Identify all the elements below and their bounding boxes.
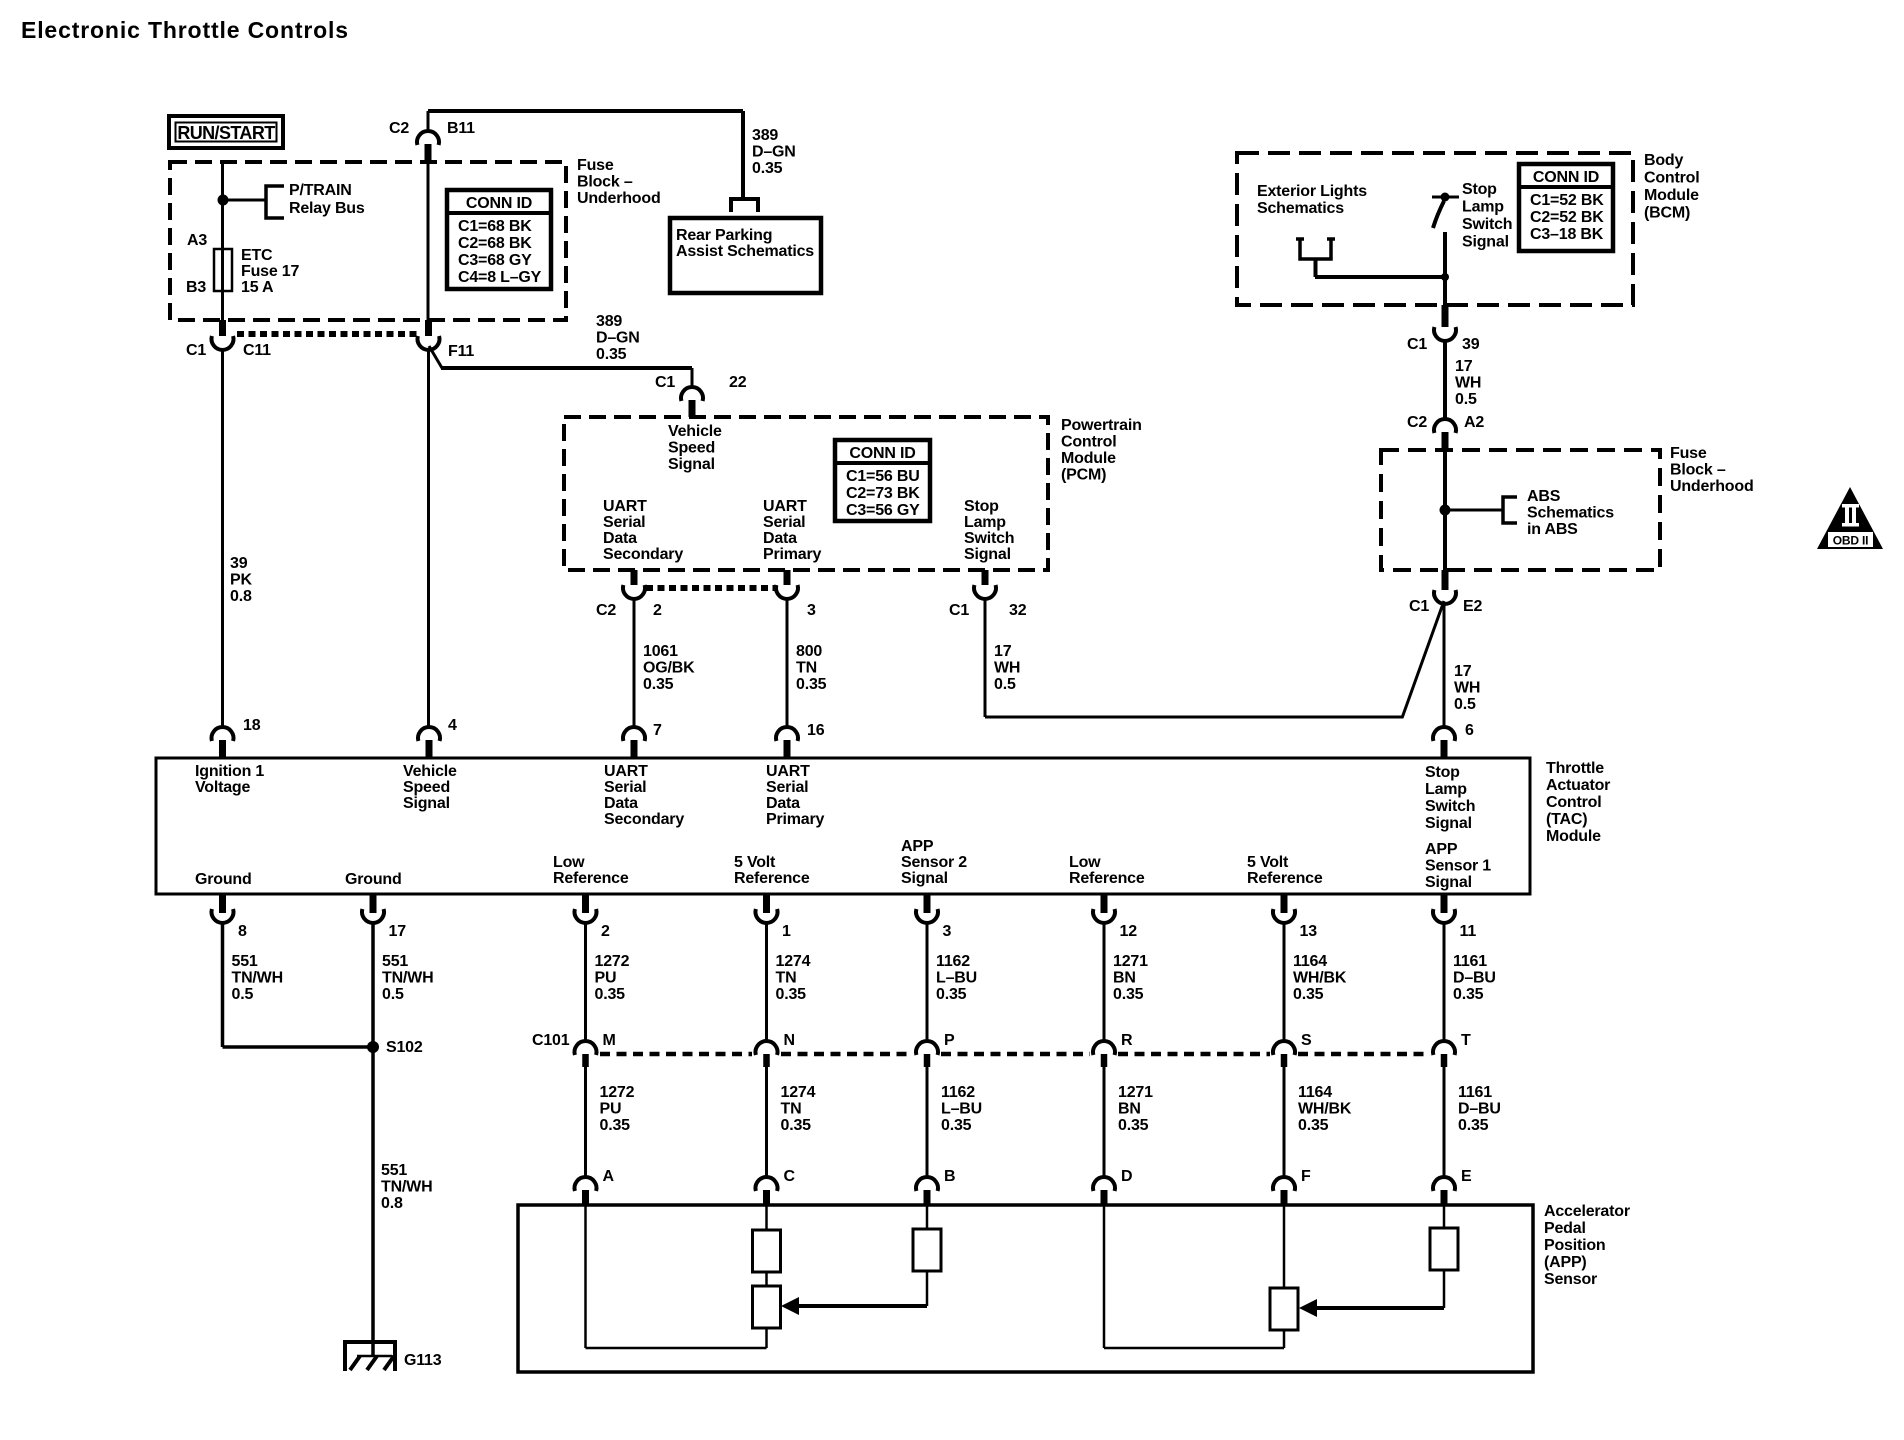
svg-text:Signal: Signal <box>901 870 948 887</box>
svg-text:C2=73 BK: C2=73 BK <box>846 485 920 502</box>
svg-text:1274: 1274 <box>781 1084 816 1101</box>
svg-text:CONN ID: CONN ID <box>466 195 532 212</box>
svg-text:800: 800 <box>796 643 822 660</box>
svg-text:1272: 1272 <box>595 953 630 970</box>
svg-text:Reference: Reference <box>1069 870 1145 887</box>
svg-text:C2: C2 <box>389 120 409 137</box>
svg-text:Lamp: Lamp <box>1462 199 1504 216</box>
svg-text:Control: Control <box>1644 170 1699 187</box>
svg-text:0.35: 0.35 <box>776 986 807 1003</box>
svg-text:Lamp: Lamp <box>964 514 1006 531</box>
svg-text:0.8: 0.8 <box>230 588 252 605</box>
svg-text:1164: 1164 <box>1293 953 1327 970</box>
svg-text:Serial: Serial <box>604 779 646 796</box>
svg-text:CONN ID: CONN ID <box>1533 169 1599 186</box>
svg-text:WH: WH <box>994 660 1020 677</box>
svg-text:5 Volt: 5 Volt <box>1247 854 1289 871</box>
svg-text:(APP): (APP) <box>1544 1254 1587 1271</box>
svg-text:Ground: Ground <box>345 871 402 888</box>
svg-text:Signal: Signal <box>668 456 715 473</box>
svg-text:551: 551 <box>232 953 258 970</box>
svg-text:Lamp: Lamp <box>1425 781 1467 798</box>
svg-text:Data: Data <box>763 530 797 547</box>
svg-text:TN/WH: TN/WH <box>232 970 283 987</box>
svg-text:Voltage: Voltage <box>195 779 251 796</box>
svg-text:APP: APP <box>1425 841 1458 858</box>
svg-text:0.35: 0.35 <box>781 1117 812 1134</box>
svg-text:Primary: Primary <box>763 546 821 563</box>
svg-text:(PCM): (PCM) <box>1061 467 1106 484</box>
svg-text:18: 18 <box>243 717 261 734</box>
svg-text:Accelerator: Accelerator <box>1544 1203 1630 1220</box>
svg-text:RUN/START: RUN/START <box>177 123 275 143</box>
svg-text:T: T <box>1461 1032 1471 1049</box>
svg-text:Schematics: Schematics <box>1527 505 1614 522</box>
svg-text:0.35: 0.35 <box>1293 986 1324 1003</box>
svg-text:PU: PU <box>595 970 617 987</box>
svg-text:1161: 1161 <box>1453 953 1487 970</box>
svg-text:Primary: Primary <box>766 811 824 828</box>
svg-text:UART: UART <box>766 763 810 780</box>
svg-text:Control: Control <box>1546 794 1601 811</box>
svg-text:Ignition 1: Ignition 1 <box>195 763 264 780</box>
svg-text:551: 551 <box>381 1162 407 1179</box>
svg-text:Low: Low <box>1069 854 1101 871</box>
svg-text:Sensor 1: Sensor 1 <box>1425 858 1491 875</box>
svg-text:Throttle: Throttle <box>1546 760 1604 777</box>
svg-text:17: 17 <box>389 923 407 940</box>
svg-text:TN: TN <box>776 970 797 987</box>
svg-text:B: B <box>944 1168 955 1185</box>
svg-text:15 A: 15 A <box>241 279 274 296</box>
svg-text:Actuator: Actuator <box>1546 777 1610 794</box>
svg-text:1061: 1061 <box>643 643 678 660</box>
svg-text:Block –: Block – <box>577 174 633 191</box>
svg-text:C3–18 BK: C3–18 BK <box>1530 226 1604 243</box>
svg-text:TN: TN <box>796 660 817 677</box>
svg-text:0.35: 0.35 <box>1458 1117 1489 1134</box>
svg-text:G113: G113 <box>404 1352 442 1369</box>
svg-text:389: 389 <box>752 127 778 144</box>
svg-text:Electronic Throttle Controls: Electronic Throttle Controls <box>21 17 349 43</box>
svg-text:TN/WH: TN/WH <box>382 970 433 987</box>
svg-text:0.5: 0.5 <box>232 986 254 1003</box>
svg-text:L–BU: L–BU <box>936 970 977 987</box>
svg-text:0.35: 0.35 <box>1118 1117 1149 1134</box>
svg-text:Data: Data <box>604 795 638 812</box>
svg-text:4: 4 <box>448 717 457 734</box>
svg-text:1271: 1271 <box>1113 953 1148 970</box>
svg-text:13: 13 <box>1300 923 1318 940</box>
svg-text:Signal: Signal <box>1462 234 1509 251</box>
svg-text:Sensor 2: Sensor 2 <box>901 854 967 871</box>
svg-text:0.35: 0.35 <box>1298 1117 1329 1134</box>
svg-text:Fuse: Fuse <box>577 157 614 174</box>
svg-text:8: 8 <box>238 923 247 940</box>
svg-text:D: D <box>1121 1168 1132 1185</box>
svg-text:1: 1 <box>782 923 791 940</box>
svg-text:0.5: 0.5 <box>994 676 1016 693</box>
svg-text:Module: Module <box>1061 450 1116 467</box>
svg-text:Assist Schematics: Assist Schematics <box>676 243 814 260</box>
svg-text:0.35: 0.35 <box>596 346 627 363</box>
svg-text:16: 16 <box>807 722 825 739</box>
svg-text:C2=52 BK: C2=52 BK <box>1530 209 1604 226</box>
svg-text:OG/BK: OG/BK <box>643 660 695 677</box>
svg-text:Stop: Stop <box>1425 764 1460 781</box>
svg-text:C4=8 L–GY: C4=8 L–GY <box>458 269 542 286</box>
svg-text:B11: B11 <box>447 120 475 137</box>
svg-text:Control: Control <box>1061 434 1116 451</box>
svg-text:1162: 1162 <box>941 1084 975 1101</box>
svg-text:Switch: Switch <box>964 530 1014 547</box>
svg-text:CONN ID: CONN ID <box>849 445 915 462</box>
svg-text:0.5: 0.5 <box>1454 696 1476 713</box>
svg-text:D–GN: D–GN <box>752 144 796 161</box>
svg-text:C1: C1 <box>1409 598 1429 615</box>
svg-text:Serial: Serial <box>603 514 645 531</box>
svg-text:PU: PU <box>600 1101 622 1118</box>
svg-text:0.35: 0.35 <box>643 676 674 693</box>
svg-text:1272: 1272 <box>600 1084 635 1101</box>
svg-text:Switch: Switch <box>1425 798 1475 815</box>
svg-text:Signal: Signal <box>1425 874 1472 891</box>
svg-text:Fuse 17: Fuse 17 <box>241 263 299 280</box>
svg-text:C2: C2 <box>596 602 616 619</box>
svg-text:UART: UART <box>604 763 648 780</box>
svg-text:E: E <box>1461 1168 1472 1185</box>
svg-text:TN: TN <box>781 1101 802 1118</box>
svg-text:S102: S102 <box>386 1039 423 1056</box>
svg-text:WH/BK: WH/BK <box>1293 970 1347 987</box>
svg-text:Vehicle: Vehicle <box>403 763 457 780</box>
svg-text:2: 2 <box>653 602 662 619</box>
svg-text:UART: UART <box>603 498 647 515</box>
svg-text:1164: 1164 <box>1298 1084 1332 1101</box>
svg-text:0.5: 0.5 <box>1455 391 1477 408</box>
svg-text:C1=52 BK: C1=52 BK <box>1530 192 1604 209</box>
svg-text:1162: 1162 <box>936 953 970 970</box>
svg-text:D–BU: D–BU <box>1458 1101 1501 1118</box>
svg-text:Reference: Reference <box>1247 870 1323 887</box>
svg-text:0.35: 0.35 <box>941 1117 972 1134</box>
svg-text:in ABS: in ABS <box>1527 521 1578 538</box>
svg-text:WH: WH <box>1454 680 1480 697</box>
svg-text:Sensor: Sensor <box>1544 1271 1597 1288</box>
svg-text:A3: A3 <box>187 232 207 249</box>
svg-text:B3: B3 <box>186 279 206 296</box>
svg-text:P/TRAIN: P/TRAIN <box>289 182 352 199</box>
svg-text:TN/WH: TN/WH <box>381 1179 432 1196</box>
svg-text:0.35: 0.35 <box>936 986 967 1003</box>
svg-text:0.35: 0.35 <box>1453 986 1484 1003</box>
svg-text:Low: Low <box>553 854 585 871</box>
svg-text:S: S <box>1301 1032 1312 1049</box>
svg-text:Serial: Serial <box>763 514 805 531</box>
svg-text:Data: Data <box>603 530 637 547</box>
svg-text:C101: C101 <box>532 1032 570 1049</box>
svg-text:5 Volt: 5 Volt <box>734 854 776 871</box>
svg-text:Signal: Signal <box>403 795 450 812</box>
svg-text:C1: C1 <box>186 342 206 359</box>
svg-text:N: N <box>784 1032 795 1049</box>
svg-text:C2=68 BK: C2=68 BK <box>458 235 532 252</box>
svg-text:C1: C1 <box>655 374 675 391</box>
svg-text:32: 32 <box>1009 602 1027 619</box>
svg-text:Stop: Stop <box>964 498 999 515</box>
svg-text:Block –: Block – <box>1670 462 1726 479</box>
svg-text:WH: WH <box>1455 375 1481 392</box>
svg-text:P: P <box>944 1032 955 1049</box>
svg-text:0.35: 0.35 <box>600 1117 631 1134</box>
svg-text:Stop: Stop <box>1462 181 1497 198</box>
svg-text:Vehicle: Vehicle <box>668 423 722 440</box>
svg-text:F: F <box>1301 1168 1311 1185</box>
svg-text:Signal: Signal <box>1425 815 1472 832</box>
svg-text:17: 17 <box>994 643 1012 660</box>
svg-text:C: C <box>784 1168 796 1185</box>
svg-text:Reference: Reference <box>734 870 810 887</box>
svg-text:E2: E2 <box>1463 598 1482 615</box>
svg-text:7: 7 <box>653 722 662 739</box>
svg-text:PK: PK <box>230 572 252 589</box>
svg-text:UART: UART <box>763 498 807 515</box>
svg-text:C1=68 BK: C1=68 BK <box>458 218 532 235</box>
svg-text:D–BU: D–BU <box>1453 970 1496 987</box>
svg-text:Underhood: Underhood <box>577 190 661 207</box>
svg-text:C2: C2 <box>1407 414 1427 431</box>
svg-text:Switch: Switch <box>1462 216 1512 233</box>
svg-text:3: 3 <box>807 602 816 619</box>
svg-text:11: 11 <box>1460 923 1477 940</box>
svg-text:3: 3 <box>943 923 952 940</box>
svg-text:(BCM): (BCM) <box>1644 205 1690 222</box>
svg-text:C1=56 BU: C1=56 BU <box>846 468 920 485</box>
svg-text:C3=56 GY: C3=56 GY <box>846 502 920 519</box>
svg-text:6: 6 <box>1465 722 1474 739</box>
svg-text:Data: Data <box>766 795 800 812</box>
svg-text:Powertrain: Powertrain <box>1061 417 1142 434</box>
svg-text:Secondary: Secondary <box>603 546 683 563</box>
svg-text:1274: 1274 <box>776 953 811 970</box>
svg-text:Pedal: Pedal <box>1544 1220 1586 1237</box>
svg-text:Ground: Ground <box>195 871 252 888</box>
svg-text:BN: BN <box>1118 1101 1141 1118</box>
svg-text:Speed: Speed <box>668 440 715 457</box>
svg-text:R: R <box>1121 1032 1133 1049</box>
svg-text:(TAC): (TAC) <box>1546 811 1587 828</box>
svg-text:M: M <box>603 1032 616 1049</box>
svg-text:Rear Parking: Rear Parking <box>676 227 772 244</box>
svg-text:Signal: Signal <box>964 546 1011 563</box>
svg-text:Fuse: Fuse <box>1670 445 1707 462</box>
svg-text:F11: F11 <box>448 343 474 360</box>
svg-text:ETC: ETC <box>241 247 273 264</box>
svg-text:APP: APP <box>901 838 934 855</box>
svg-text:0.5: 0.5 <box>382 986 404 1003</box>
svg-text:0.8: 0.8 <box>381 1195 403 1212</box>
svg-text:Serial: Serial <box>766 779 808 796</box>
svg-text:Secondary: Secondary <box>604 811 684 828</box>
svg-text:17: 17 <box>1454 663 1472 680</box>
svg-text:ABS: ABS <box>1527 488 1561 505</box>
svg-text:C1: C1 <box>949 602 969 619</box>
svg-text:BN: BN <box>1113 970 1136 987</box>
svg-text:17: 17 <box>1455 358 1473 375</box>
svg-text:D–GN: D–GN <box>596 330 640 347</box>
svg-text:0.35: 0.35 <box>796 676 827 693</box>
svg-text:C11: C11 <box>243 342 271 359</box>
svg-text:389: 389 <box>596 313 622 330</box>
svg-text:Reference: Reference <box>553 870 629 887</box>
svg-text:39: 39 <box>1462 336 1480 353</box>
svg-text:Speed: Speed <box>403 779 450 796</box>
svg-text:Underhood: Underhood <box>1670 478 1754 495</box>
svg-text:Exterior Lights: Exterior Lights <box>1257 183 1367 200</box>
svg-text:Module: Module <box>1546 828 1601 845</box>
svg-text:39: 39 <box>230 555 248 572</box>
svg-text:C3=68 GY: C3=68 GY <box>458 252 532 269</box>
svg-text:551: 551 <box>382 953 408 970</box>
svg-text:0.35: 0.35 <box>1113 986 1144 1003</box>
svg-text:C1: C1 <box>1407 336 1427 353</box>
svg-text:A: A <box>603 1168 615 1185</box>
svg-text:Module: Module <box>1644 187 1699 204</box>
svg-text:Position: Position <box>1544 1237 1606 1254</box>
svg-text:A2: A2 <box>1464 414 1484 431</box>
svg-text:Body: Body <box>1644 152 1684 169</box>
svg-text:WH/BK: WH/BK <box>1298 1101 1352 1118</box>
svg-text:1271: 1271 <box>1118 1084 1153 1101</box>
svg-text:12: 12 <box>1120 923 1138 940</box>
svg-text:0.35: 0.35 <box>595 986 626 1003</box>
svg-text:2: 2 <box>601 923 610 940</box>
svg-text:1161: 1161 <box>1458 1084 1492 1101</box>
svg-text:22: 22 <box>729 374 747 391</box>
svg-text:Relay Bus: Relay Bus <box>289 200 365 217</box>
svg-text:L–BU: L–BU <box>941 1101 982 1118</box>
svg-text:Schematics: Schematics <box>1257 200 1344 217</box>
svg-text:0.35: 0.35 <box>752 160 783 177</box>
svg-text:OBD II: OBD II <box>1833 534 1868 548</box>
